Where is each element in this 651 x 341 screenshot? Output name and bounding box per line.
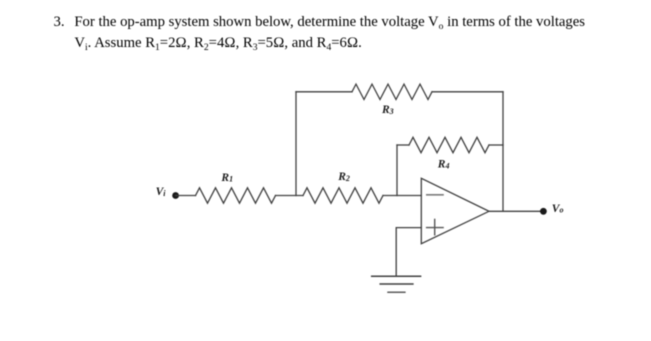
op-amp U1 <box>421 178 489 243</box>
wire <box>502 92 504 212</box>
svg-text:Vo: Vo <box>552 203 564 215</box>
resistor R1 <box>196 188 276 203</box>
svg-text:R2: R2 <box>337 171 350 183</box>
wire <box>396 228 421 276</box>
resistor R4 <box>409 137 489 152</box>
wire <box>432 91 503 93</box>
problem text <box>54 12 65 33</box>
node Vi <box>172 192 179 199</box>
wire <box>295 92 297 196</box>
wire <box>296 91 352 93</box>
resistor R2 <box>303 188 383 203</box>
wire <box>383 195 421 197</box>
wire <box>397 144 409 146</box>
node Vo <box>540 208 547 215</box>
svg-text:R4: R4 <box>437 159 450 171</box>
wire <box>489 144 503 146</box>
resistor R3 <box>352 84 432 99</box>
svg-text:R1: R1 <box>220 172 233 184</box>
ground <box>372 276 421 292</box>
wire <box>276 195 304 197</box>
wire <box>396 145 398 196</box>
svg-text:R3: R3 <box>381 104 394 116</box>
wire <box>489 210 543 212</box>
wire <box>176 195 196 197</box>
svg-text:Vi: Vi <box>156 186 167 198</box>
